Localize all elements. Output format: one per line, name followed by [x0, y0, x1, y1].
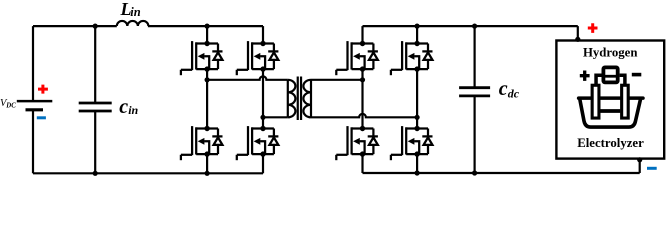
transistor S1 (top-left MOSFET with body diode) — [181, 41, 223, 75]
battery VDC positive plate — [17, 100, 53, 103]
transformer T1 primary winding — [288, 80, 296, 118]
node: right bridge leg2 bottom rail junction — [415, 170, 420, 175]
output minus marker (blue) — [647, 167, 657, 170]
transistor Q4 (bottom-right MOSFET of right bridge) — [391, 126, 433, 160]
battery plus marker (red) — [38, 85, 48, 94]
wire: secondary top to right bridge leg1 — [311, 79, 363, 81]
wire: right bridge leg2 midsection — [416, 69, 418, 128]
wire: battery top lead — [32, 26, 34, 101]
transistor Q3 (bottom-left MOSFET of right bridge) — [336, 126, 378, 160]
node: secondary top tap on right leg1 — [360, 77, 365, 82]
label cin — [119, 96, 138, 118]
electrolyzer icon plus terminal — [580, 71, 590, 81]
node: right bridge leg2 top rail junction — [415, 24, 420, 29]
wire: Q3 source lead — [361, 154, 363, 173]
label cdc — [499, 78, 520, 101]
wire: bottom-left rail — [33, 172, 263, 174]
svg-text:DC: DC — [5, 103, 16, 110]
transformer T1 core — [298, 77, 301, 121]
svg-text:Electrolyzer: Electrolyzer — [577, 136, 644, 150]
svg-text:in: in — [130, 5, 140, 19]
wire: phase B to transformer primary bottom — [263, 116, 288, 118]
svg-text:in: in — [128, 103, 138, 117]
node: output positive junction on box top edge — [575, 37, 580, 42]
capacitor cin bottom lead — [94, 111, 96, 173]
wire: left bridge leg1 midsection (phase node A) — [206, 69, 208, 128]
node: output negative junction on box bottom edge — [637, 157, 642, 162]
wire: top-left rail from battery to inductor — [33, 25, 117, 27]
electrolyzer icon minus terminal — [632, 73, 642, 77]
label Hydrogen — [583, 46, 638, 60]
node: left bridge leg1 bottom rail junction — [205, 171, 210, 176]
svg-text:c: c — [119, 96, 128, 118]
electrolyzer icon left electrode plate — [592, 85, 599, 118]
battery minus marker (blue) — [37, 116, 46, 119]
transistor S4 (bottom-right MOSFET of left bridge) — [237, 126, 279, 160]
node: cdc bottom junction — [472, 170, 477, 175]
label VDC — [0, 98, 16, 110]
label Lin — [120, 0, 141, 19]
wire: left bridge leg2 midsection (phase node B) — [262, 69, 264, 128]
node: cdc top junction — [472, 24, 477, 29]
node: secondary bottom tap on right leg2 — [415, 115, 420, 120]
wire: S4 source lead — [262, 154, 264, 173]
wire: Q1 drain lead — [361, 26, 363, 43]
svg-text:Hydrogen: Hydrogen — [583, 46, 638, 60]
transformer T1 secondary winding — [303, 80, 311, 118]
label Electrolyzer — [577, 136, 644, 150]
wire: secondary bottom to right bridge leg2 (with hop over leg1) — [311, 114, 417, 117]
transistor S2 (top-right MOSFET of left bridge) — [237, 41, 279, 75]
transistor S3 (bottom-left MOSFET with body diode) — [181, 126, 223, 160]
wire: battery bottom lead — [32, 110, 34, 174]
wire: S1 drain lead — [206, 26, 208, 43]
capacitor cdc bottom lead — [474, 96, 476, 173]
node: phase A tap on leg1 — [205, 77, 210, 82]
capacitor cin top lead — [94, 26, 96, 103]
capacitor cdc plates — [459, 88, 490, 96]
wire: Q4 source lead — [416, 154, 418, 173]
capacitor cin plates — [79, 103, 112, 111]
electrolyzer icon tub rim — [579, 96, 643, 100]
wire: right bridge leg1 midsection — [361, 69, 363, 128]
electrolyzer icon right arm — [620, 75, 627, 85]
wire: top rail from inductor to left bridge right leg — [148, 25, 263, 27]
electrolyzer icon right electrode plate — [622, 85, 629, 118]
capacitor cdc top lead — [474, 26, 476, 88]
svg-text:dc: dc — [508, 87, 520, 101]
transistor Q1 (top-left MOSFET of right bridge) — [336, 41, 378, 75]
electrolyzer icon mid bar between plates — [600, 109, 620, 113]
wire: phase A to transformer primary top (with hop over leg2) — [207, 76, 288, 79]
svg-text:c: c — [499, 78, 508, 100]
wire: S3 source lead — [206, 154, 208, 173]
node: phase B tap on leg2 — [260, 115, 265, 120]
electrolyzer icon cell (battery) — [603, 67, 617, 82]
node: left bridge leg1 top rail junction — [205, 24, 210, 29]
node: cin top junction — [93, 24, 98, 29]
node: cin bottom junction — [93, 171, 98, 176]
wire: Q2 drain lead — [416, 26, 418, 43]
wire: bottom-right rail to electrolyzer — [363, 160, 640, 173]
electrolyzer box U1 — [556, 41, 664, 159]
wire: right bridge top rail to output corner — [363, 26, 578, 39]
inductor Lin — [117, 21, 149, 26]
electrolyzer icon tub basin — [580, 99, 641, 127]
electrolyzer icon left arm — [594, 75, 601, 85]
transistor Q2 (top-right MOSFET of right bridge) — [391, 41, 433, 75]
output plus marker (red) — [588, 23, 598, 33]
wire: S2 drain lead — [262, 26, 264, 43]
battery VDC negative plate — [26, 108, 44, 111]
